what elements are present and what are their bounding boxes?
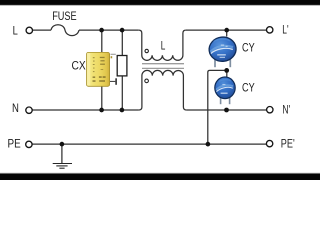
svg-text:CY: CY xyxy=(242,83,255,95)
svg-text:PE': PE' xyxy=(281,139,295,151)
svg-text:PE: PE xyxy=(8,139,21,151)
svg-text:L: L xyxy=(161,40,166,52)
svg-text:N': N' xyxy=(282,105,290,117)
svg-text:FUSE: FUSE xyxy=(52,9,76,23)
svg-text:N: N xyxy=(12,103,19,115)
svg-text:L': L' xyxy=(282,24,288,36)
svg-text:CY: CY xyxy=(242,42,255,54)
svg-text:L: L xyxy=(13,25,19,37)
svg-text:CX: CX xyxy=(72,61,86,73)
